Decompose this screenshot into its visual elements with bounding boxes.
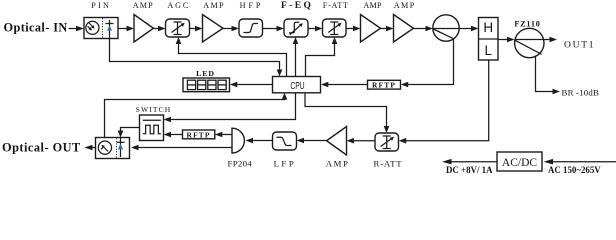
low-pass filter LFP — [273, 132, 297, 150]
amplifier AMP3 — [361, 15, 381, 43]
wire AGC to AMP2 — [190, 28, 197, 30]
variable equalizer F-EQ — [284, 19, 308, 37]
svg-text:FP204: FP204 — [228, 158, 253, 168]
svg-text:Optical- IN: Optical- IN — [4, 21, 68, 35]
wire F-ATT to AMP3 — [346, 28, 355, 30]
amplifier AMP1 — [134, 15, 154, 43]
svg-text:PIN: PIN — [91, 1, 111, 10]
svg-text:F-EQ: F-EQ — [281, 1, 313, 11]
svg-text:RFTP: RFTP — [187, 130, 211, 139]
svg-text:R-ATT: R-ATT — [374, 158, 403, 168]
amplifier AMP5 — [327, 127, 347, 156]
diplex filter H/L — [479, 18, 499, 61]
LED display — [183, 78, 230, 92]
wire HFP to F-EQ — [263, 28, 279, 30]
variable attenuator F-ATT — [323, 19, 347, 37]
wire CPU to AGC control — [179, 43, 287, 77]
wire optical output arrow — [91, 147, 96, 149]
wire AMP1 to AGC — [154, 28, 160, 30]
power supply AC/DC — [497, 152, 542, 171]
variable attenuator AGC — [166, 19, 190, 37]
laser module Optical-OUT — [96, 138, 130, 159]
wire SP1 to H/L — [459, 28, 472, 30]
wire DC output — [451, 161, 497, 163]
amplifier AMP2 — [203, 15, 224, 43]
svg-text:AGC: AGC — [167, 1, 190, 10]
amplifier AMP4 — [394, 15, 414, 43]
svg-text:AC/DC: AC/DC — [502, 157, 537, 169]
wire SP1 tap to RFTP1 — [406, 39, 454, 85]
wire AMP2 to HFP — [223, 28, 233, 30]
svg-text:AMP: AMP — [133, 1, 154, 10]
wire H/L low tap to R-ATT — [404, 60, 489, 141]
svg-text:LFP: LFP — [274, 158, 297, 168]
wire PIN to AMP1 — [118, 28, 128, 30]
switch SWITCH — [140, 115, 164, 141]
coupler FP204 — [232, 128, 244, 153]
svg-text:SWITCH: SWITCH — [136, 105, 172, 114]
wire AC input — [551, 161, 616, 163]
wire optical input arrow — [69, 28, 79, 30]
wire FZ110 to OUT1 — [544, 39, 551, 41]
wire FZ110 tap to BR — [536, 56, 554, 92]
wire AMP5 to LFP — [303, 140, 327, 142]
svg-text:DC +8V/ 1A: DC +8V/ 1A — [446, 165, 493, 175]
svg-text:AMP: AMP — [326, 158, 350, 168]
svg-text:HFP: HFP — [240, 1, 264, 10]
wire RFTP2 to SWITCH — [169, 134, 183, 136]
splitter FZ110 — [515, 28, 544, 57]
wire CPU to F-EQ control — [295, 43, 297, 77]
wire CPU to R-ATT control — [305, 93, 387, 128]
svg-text:F-ATT: F-ATT — [323, 1, 349, 10]
wire LFP to FP204 — [251, 140, 273, 142]
wire CPU to F-ATT control — [306, 43, 335, 77]
wire RFTP1 to CPU — [327, 84, 368, 86]
svg-text:RFTP: RFTP — [372, 81, 396, 90]
svg-text:Optical- OUT: Optical- OUT — [2, 141, 81, 155]
wire PIN monitor to CPU — [110, 39, 280, 73]
wire FP204 to RFTP2 — [221, 134, 233, 136]
test point RFTP2 — [183, 130, 215, 139]
variable attenuator R-ATT — [375, 133, 399, 151]
high-pass filter HFP — [239, 19, 263, 37]
wire AMP4 to splitter SP1 — [414, 28, 428, 30]
wire H/L to FZ110 — [498, 39, 509, 41]
wire F-EQ to F-ATT — [308, 28, 317, 30]
svg-text:OUT1: OUT1 — [564, 41, 595, 51]
svg-text:AMP: AMP — [394, 1, 416, 10]
svg-text:FZ110: FZ110 — [514, 20, 540, 29]
photodiode module PIN — [84, 18, 118, 39]
wire AMP3 to AMP4 — [381, 28, 388, 30]
svg-text:L: L — [484, 43, 492, 58]
svg-text:AC 150~265V: AC 150~265V — [548, 165, 601, 175]
svg-text:LED: LED — [196, 69, 215, 78]
splitter SP1 — [433, 15, 459, 41]
wire R-ATT to AMP5 — [353, 140, 376, 142]
controller CPU — [273, 77, 321, 93]
svg-text:AMP: AMP — [363, 1, 382, 10]
svg-text:BR -10dB: BR -10dB — [562, 88, 600, 98]
svg-text:CPU: CPU — [290, 80, 304, 92]
test point RFTP1 — [368, 80, 401, 89]
wire CPU to SWITCH — [169, 93, 296, 120]
wire SWITCH to laser module — [121, 128, 140, 133]
svg-text:H: H — [483, 20, 493, 35]
wire FP204 to laser module — [137, 147, 232, 149]
svg-text:AMP: AMP — [203, 1, 225, 10]
wire CPU to LED — [236, 84, 273, 86]
wire laser module to CPU — [105, 98, 285, 138]
